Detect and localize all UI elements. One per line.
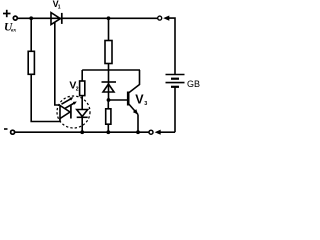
svg-text:3: 3 <box>144 101 147 107</box>
label V1 <box>53 0 61 10</box>
node junction photodiode bottom <box>80 130 84 134</box>
resistor R2 <box>105 41 112 64</box>
node junction R3 bottom <box>106 130 110 134</box>
label Uvx <box>4 22 16 34</box>
node junction R1 top <box>29 16 33 20</box>
input terminal top <box>13 16 17 20</box>
label GB <box>187 79 200 89</box>
resistor R1 <box>28 51 34 74</box>
svg-text:2: 2 <box>76 87 79 93</box>
light arrow 2 <box>65 102 77 109</box>
resistor R3 <box>106 109 111 124</box>
wire R1 bottom lead down and right to LED <box>31 74 60 121</box>
wire bottom right to battery <box>160 131 175 133</box>
output terminal bottom left <box>11 130 15 134</box>
label V3 <box>135 92 147 107</box>
minus sign output polarity <box>4 128 8 130</box>
light arrow 1 <box>62 97 74 104</box>
wire R1 top lead <box>30 18 32 51</box>
LED of V2 <box>60 106 71 119</box>
diode V1 <box>51 13 62 25</box>
label V2 <box>69 80 78 93</box>
bottom rail wire <box>15 131 149 133</box>
battery GB <box>166 75 185 87</box>
svg-text:1: 1 <box>58 4 61 10</box>
wire mid rail down through diode to base node <box>108 70 110 100</box>
switch contact bottom (circle) <box>149 130 153 134</box>
photodiode of V2 (pointing down) <box>77 110 88 118</box>
photoresistor element of V2 <box>80 81 85 96</box>
wire R3 bottom to rail <box>107 124 109 132</box>
wire from V1 anode region down to LED anode top <box>55 22 60 105</box>
wire base node to transistor base <box>109 99 128 101</box>
diode across base (triangle up, cathode bar top) <box>102 82 117 92</box>
wire top rail <box>17 17 157 19</box>
wire battery bottom to bottom rail <box>174 87 176 132</box>
node junction R2 top <box>107 16 111 20</box>
wire base node down to R3 <box>107 100 109 109</box>
switch arrow bottom <box>155 130 161 135</box>
switch contact top (circle) <box>158 16 162 20</box>
svg-text:V: V <box>135 92 144 106</box>
wire mid rail left corner down to photoresistor <box>81 70 83 81</box>
wire photodiode to bottom rail <box>81 117 83 132</box>
optocoupler V2 dashed envelope <box>57 96 90 128</box>
node junction emitter bottom <box>136 130 140 134</box>
wire R2 bottom lead <box>108 64 110 71</box>
svg-text:GB: GB <box>187 79 200 89</box>
node junction base <box>107 98 111 102</box>
switch arrow top <box>163 16 169 21</box>
wire R2 top lead <box>108 18 110 40</box>
mid rail wire <box>82 69 140 71</box>
wire photoresistor to photodiode <box>81 96 83 110</box>
transistor V3 <box>128 70 139 132</box>
wire top right to corner and down to battery <box>169 18 175 74</box>
plus sign input polarity <box>3 10 11 17</box>
svg-text:вх: вх <box>11 27 16 33</box>
